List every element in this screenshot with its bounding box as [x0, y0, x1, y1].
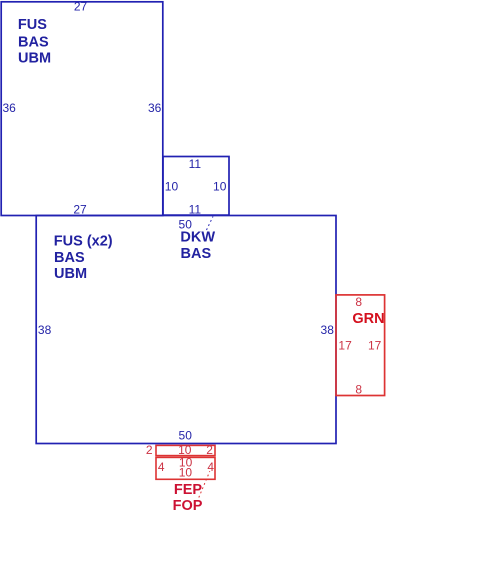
svg-text:27: 27 [74, 0, 88, 14]
svg-text:11: 11 [189, 202, 202, 216]
building C outline (FUS x2 / BAS / UBM) [36, 216, 336, 444]
building B outline (DKW/BAS) [163, 157, 229, 216]
svg-text:27: 27 [73, 203, 87, 217]
svg-text:4: 4 [207, 460, 214, 474]
svg-text:UBM: UBM [54, 266, 87, 282]
svg-text:17: 17 [338, 339, 352, 353]
svg-text:FUS: FUS [18, 17, 47, 33]
svg-text:50: 50 [179, 217, 193, 231]
svg-text:8: 8 [355, 382, 362, 396]
svg-text:BAS: BAS [181, 246, 212, 262]
svg-text:FEP: FEP [174, 482, 203, 498]
building A outline (FUS/BAS/UBM) [1, 2, 163, 216]
building D outline (GRN) [336, 295, 385, 396]
svg-text:8: 8 [355, 295, 362, 309]
svg-text:2: 2 [206, 443, 213, 457]
svg-text:BAS: BAS [18, 34, 49, 50]
svg-text:2: 2 [146, 443, 153, 457]
svg-text:DKW: DKW [180, 230, 215, 246]
svg-text:50: 50 [179, 429, 193, 443]
svg-text:UBM: UBM [18, 51, 51, 67]
leader line to DKW label [207, 217, 214, 231]
svg-text:38: 38 [38, 323, 52, 337]
svg-text:36: 36 [3, 101, 17, 115]
svg-text:10: 10 [179, 466, 193, 480]
building E lower outline (FOP) [156, 457, 215, 479]
svg-text:17: 17 [368, 339, 382, 353]
building E upper outline (FEP) [156, 445, 215, 455]
svg-text:FUS (x2): FUS (x2) [54, 234, 113, 250]
svg-text:38: 38 [321, 323, 335, 337]
svg-text:36: 36 [148, 101, 162, 115]
svg-text:GRN: GRN [352, 311, 384, 327]
leader line to FEP label [199, 471, 210, 497]
svg-text:10: 10 [165, 179, 179, 193]
svg-text:11: 11 [189, 157, 202, 171]
svg-text:10: 10 [213, 179, 227, 193]
svg-text:BAS: BAS [54, 250, 85, 266]
svg-text:FOP: FOP [173, 498, 203, 514]
svg-text:4: 4 [158, 460, 165, 474]
